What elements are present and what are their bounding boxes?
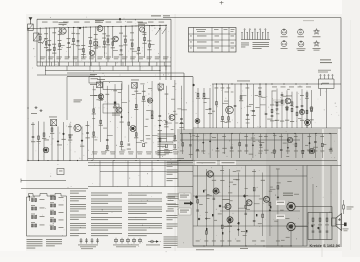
tiny label strip 9: [286, 155, 289, 158]
capacitor C3121: [180, 123, 183, 124]
junction upper bus x112: [112, 26, 113, 27]
tiny label mid 15: [177, 108, 181, 111]
panel strip column x239: [239, 134, 241, 159]
legend col3 para5: [128, 223, 162, 231]
jog wire clusterB 0: [94, 95, 100, 97]
capacitor C402: [209, 109, 212, 110]
cluster C label 8: [246, 118, 250, 121]
cluster C column x228: [228, 84, 230, 128]
bottom right sliver text: [164, 237, 178, 248]
transformer symbol T20: [50, 197, 55, 200]
legend col1 para5: [70, 223, 86, 231]
tiny label audio 1: [228, 191, 232, 194]
electrolytic capacitor blobs audio: [203, 190, 204, 192]
cluster B bottom label 3: [119, 151, 125, 154]
cluster D column x302: [301, 89, 303, 128]
wire x313 network feed: [312, 184, 314, 213]
cluster A column x52: [51, 120, 53, 160]
resistor R right margin: [343, 200, 345, 214]
wire x67 down: [66, 77, 68, 120]
resistor R3010: [100, 120, 102, 123]
resistor R3060: [135, 104, 137, 107]
jog wire clusterB 6: [136, 141, 142, 143]
resistor R7100: [277, 186, 279, 189]
ground near left border: [35, 106, 38, 109]
input label box 1: [179, 193, 192, 200]
transformer label T21: [59, 204, 64, 207]
interstage wire x113: [112, 66, 114, 71]
audio column x213: [213, 173, 215, 247]
label V103 AF105: [138, 23, 147, 24]
resistor R617: [302, 150, 304, 153]
value label 13: [111, 46, 115, 49]
cluster B column x128: [128, 85, 130, 142]
network label 0: [311, 224, 315, 227]
resistor R3000: [93, 109, 95, 112]
diode D7051: [237, 228, 239, 230]
cluster D label 2: [280, 120, 284, 123]
vertical x303: [302, 166, 304, 247]
cluster B label 120: [179, 122, 183, 125]
cluster D top label 4: [306, 86, 311, 89]
wire column upper block x132: [131, 26, 133, 62]
text V354 label: [224, 225, 232, 228]
tiny label audio 15: [199, 203, 203, 206]
jog wire audio 3: [222, 206, 228, 208]
capacitor C208: [86, 132, 89, 133]
text V201 AF201: [74, 100, 83, 101]
tiny label mid 5: [146, 118, 149, 121]
jog wire clusterB 4: [122, 101, 128, 103]
panel strip label b 9: [244, 150, 248, 153]
table row 2 letter: [190, 47, 192, 50]
legend symbols text 2: [113, 244, 139, 247]
resistor R3001: [93, 132, 95, 135]
legend col3 para4: [128, 217, 162, 220]
transistor V104: [89, 50, 94, 55]
table column line x212: [211, 28, 213, 53]
resistor R5050: [296, 112, 298, 115]
table column line x222: [221, 28, 223, 53]
resistor R5040: [291, 108, 293, 111]
connector N41: [319, 75, 335, 89]
bundle step wire x178: [177, 161, 179, 187]
table row 0 if: [215, 35, 220, 38]
transformer box outline: [27, 194, 67, 237]
label F201: [49, 116, 57, 119]
scan speckle noise layer: [28, 17, 340, 252]
resistor R115: [124, 39, 126, 42]
ref label 10: [94, 38, 98, 41]
tiny label strip 3: [273, 134, 276, 137]
small white label boxes right cluster: [273, 100, 284, 105]
bottom label row upper block 5: [81, 56, 87, 59]
capacitor C114: [120, 50, 123, 51]
wire column upper block x40: [39, 28, 41, 66]
resistor R3030: [114, 102, 116, 105]
panel strip label 6: [222, 147, 227, 150]
extra label 1: [44, 32, 48, 35]
audio label 31: [220, 179, 224, 182]
tiny label cd 19: [298, 117, 301, 120]
jog wire upper 19: [150, 44, 155, 46]
ref label 5: [66, 37, 70, 40]
interstage wire x100: [99, 66, 101, 71]
tiny label mid 10: [140, 139, 143, 142]
cluster A label 8: [86, 136, 90, 139]
capacitor C602: [196, 149, 199, 150]
cluster B label 110: [173, 148, 177, 151]
fold crease right: [322, 150, 323, 257]
antenna input filter Z101: [28, 24, 34, 30]
tiny label cd 18: [272, 90, 277, 93]
value label 17: [137, 52, 141, 55]
resistor R407: [240, 96, 242, 99]
legend col3 para1: [128, 193, 162, 196]
cluster C column x266: [265, 84, 267, 128]
ref label 15: [123, 35, 127, 38]
legend symbols bottom left: [80, 238, 83, 244]
transistor V202: [43, 147, 49, 153]
wire vertical right edge of upper block: [170, 19, 172, 80]
text V361 V362: [283, 193, 293, 194]
junction upper bus x46: [46, 28, 47, 29]
cluster C column x253: [253, 84, 255, 128]
resistor R7070: [253, 188, 255, 191]
cluster B top label 10: [165, 93, 169, 96]
audio bottom label 1: [204, 240, 208, 243]
top ref label 6: [106, 21, 112, 24]
cluster C column x260: [259, 84, 261, 128]
tiny label mid 22: [93, 88, 96, 91]
transformer symbol T24: [50, 227, 55, 230]
extra label 7: [76, 32, 80, 35]
cluster B bottom label 5: [137, 151, 143, 154]
table row 0 val: [231, 35, 235, 38]
transistor V211: [285, 98, 291, 104]
junction upper bus x121: [121, 26, 122, 27]
jog wire audio 7: [254, 203, 259, 205]
bundle step wire x113: [112, 161, 114, 187]
extra label 14: [119, 32, 123, 35]
bottom label row upper block 14: [155, 56, 161, 59]
text left of audio box 2: [166, 211, 174, 212]
tiny label cd 12: [249, 103, 253, 106]
tiny label audio 3: [229, 181, 233, 184]
dark component right margin: [344, 223, 347, 227]
cluster C top label 10: [258, 87, 262, 90]
value label 6: [71, 43, 75, 46]
junction top border: [119, 18, 121, 20]
cluster B top label 3: [113, 89, 117, 92]
main bus upper block: [28, 25, 167, 28]
audio amp outer box: [193, 166, 307, 247]
label F203: [131, 79, 139, 82]
bottom label row upper block 2: [56, 56, 62, 59]
audio bottom label 7: [252, 240, 256, 243]
transistor V203: [98, 94, 103, 99]
capacitor C3101: [165, 122, 168, 123]
tiny label strip 17: [251, 137, 255, 140]
label 14V: [286, 95, 292, 98]
tiny label cd 5: [203, 101, 206, 104]
cluster A label 1: [37, 140, 41, 143]
jog wire clusterB 10: [166, 122, 172, 124]
tiny label mid 7: [118, 91, 121, 94]
ref label 13: [111, 37, 115, 40]
panel strip label b 17: [301, 150, 305, 153]
legend col1 para2: [70, 196, 86, 201]
value label 3: [52, 52, 56, 55]
audio label 80: [261, 179, 265, 182]
diode D204: [57, 140, 60, 143]
value label 18: [142, 42, 146, 45]
ceramic filter F203: [132, 83, 138, 89]
cluster A column x38: [38, 121, 40, 160]
junction upper bus x138: [138, 25, 139, 26]
tiny label mid 9: [121, 149, 126, 152]
diode D7090: [269, 209, 271, 211]
switch note right: [253, 42, 270, 49]
cluster B bottom label 0: [92, 151, 98, 154]
transistor V213: [305, 120, 311, 126]
panel strip column x246: [245, 134, 247, 155]
cluster B column x107: [106, 86, 108, 150]
cluster A label 5: [62, 138, 66, 141]
cluster B column x166: [165, 86, 167, 142]
audio bottom label 4: [227, 240, 231, 243]
wire column upper block x59: [59, 28, 61, 66]
transistor V201: [74, 124, 81, 131]
capacitor C7020: [213, 198, 216, 199]
value label 9: [88, 45, 92, 48]
wire x331 network feed: [330, 166, 332, 213]
right wire x160: [159, 26, 161, 80]
resistor R112: [107, 39, 109, 42]
legend col2 para3: [91, 207, 122, 215]
frequency table: [189, 28, 237, 53]
diode D3031: [114, 102, 116, 104]
resistor R400: [197, 93, 199, 96]
cluster A label 3: [50, 132, 54, 135]
audio column x245: [245, 166, 247, 247]
value label 5: [66, 46, 70, 49]
cluster C top label 8: [246, 87, 250, 90]
panel strip label c 16: [294, 135, 298, 138]
cluster C label 10: [258, 95, 262, 98]
audio column x262: [262, 173, 264, 237]
tiny label strip 8: [329, 148, 332, 151]
power transistor V361: [287, 202, 295, 210]
tiny label audio 11: [233, 170, 236, 173]
wire column upper block x107: [107, 27, 109, 62]
long bus y160: [28, 160, 193, 162]
tiny label strip 19: [259, 146, 262, 149]
panel strip label 12: [264, 149, 269, 152]
panel strip label b 21: [329, 150, 333, 153]
resistor R203: [51, 128, 53, 131]
cluster A label 0: [31, 140, 35, 143]
network column x327: [326, 213, 328, 240]
tiny label cd 17: [224, 121, 227, 124]
bottom label row upper block 6: [89, 56, 95, 59]
resistor R600: [182, 143, 184, 146]
resistor R80: [312, 218, 314, 221]
panel strip label b 7: [230, 150, 234, 153]
transistor V206: [147, 98, 152, 103]
legend col1 para6: [70, 233, 86, 236]
table row 0 letter: [190, 35, 192, 38]
audio column x269: [269, 166, 271, 237]
resistor R7091: [269, 202, 271, 205]
bottom label row upper block 11: [130, 56, 136, 59]
audio bottom label 5: [236, 240, 240, 243]
bundle step wire x100: [99, 161, 101, 187]
panel strip label c 11: [259, 135, 263, 138]
socket3 label: [313, 35, 321, 38]
cluster B label 91: [158, 129, 162, 132]
value label 15: [123, 44, 127, 47]
network column x313: [312, 213, 314, 240]
audio bottom label 0: [196, 240, 200, 243]
panel strip column x315: [314, 134, 316, 159]
faint note top right: [303, 19, 314, 22]
cluster C column x247: [247, 84, 249, 128]
junction dots rail y84: [221, 83, 222, 84]
cluster C label 5: [227, 120, 231, 123]
ref label 18: [142, 33, 146, 36]
cluster B column x159: [159, 82, 161, 158]
transformer symbol T12: [31, 216, 36, 219]
note below transformer box right: [46, 239, 62, 246]
cluster B bottom label 2: [110, 151, 116, 154]
audio top label 3: [220, 169, 224, 172]
table row 1 letter: [190, 41, 192, 44]
tiny label audio 32: [243, 234, 247, 237]
top ref label 3: [74, 21, 80, 24]
panel strip column x217: [216, 134, 218, 159]
capacitor C609: [245, 145, 248, 146]
capacitor C81: [319, 231, 322, 232]
diode D351: [195, 195, 198, 198]
left border wire x28: [27, 30, 29, 160]
transformer label T23: [59, 219, 64, 222]
extra label 4: [58, 33, 62, 36]
junction bus x38.5: [38, 160, 39, 161]
audio rail y196 partial: [193, 195, 260, 197]
top ref label 9: [137, 21, 143, 24]
tiny label audio 29: [205, 211, 208, 214]
jog wire upper 13: [113, 49, 118, 51]
diode D7011: [205, 217, 207, 219]
resistor R7081: [262, 214, 264, 217]
resistor R113: [112, 42, 114, 45]
DIN socket symbol 1: [281, 29, 287, 35]
cluster B column x181: [180, 86, 182, 142]
short bus below upper block: [37, 74, 95, 76]
bundle step wire x140: [139, 161, 141, 187]
panel strip label c 20: [320, 135, 324, 138]
capacitor C619: [314, 142, 317, 143]
tiny label audio 13: [207, 193, 210, 196]
socket symbol 3 star: [314, 29, 320, 35]
junction upper bus x95: [95, 26, 96, 27]
diode D354: [198, 218, 201, 221]
tiny label audio 26: [245, 187, 248, 190]
panel strip column x274: [273, 134, 275, 159]
cluster B column x152: [151, 81, 153, 158]
panel strip label b 11: [259, 150, 263, 153]
rail y128: [193, 127, 341, 129]
diode D7101: [277, 196, 279, 198]
cluster B top label 2: [105, 93, 109, 96]
cluster C label 0: [196, 97, 200, 100]
cluster C column x210: [209, 88, 211, 128]
cluster B bottom label 6: [146, 151, 152, 154]
transformer symbol T21: [50, 204, 55, 207]
tiny label cd 0: [274, 119, 277, 122]
diode D604: [209, 140, 211, 142]
capacitor C601: [189, 145, 192, 146]
cluster C column x222: [222, 84, 224, 128]
junction upper bus x149: [149, 25, 150, 26]
ref label 8: [81, 44, 85, 47]
note below transformer box left: [27, 239, 43, 249]
text 2mV left: [166, 197, 175, 198]
legend arrow text: [146, 244, 160, 247]
panel strip column x203: [202, 134, 204, 155]
panel strip label c 2: [196, 135, 200, 138]
resistor R101: [45, 42, 47, 45]
resistor R5080: [311, 107, 313, 110]
cluster B bottom label 8: [164, 151, 170, 154]
audio bottom label 3: [220, 240, 224, 243]
white label strip on gray top: [195, 161, 217, 165]
cluster A column x33: [32, 122, 34, 160]
bus y166: [88, 165, 193, 167]
diode D603: [202, 142, 204, 144]
interstage wire x166: [165, 66, 167, 71]
label V102 AF105: [95, 20, 104, 21]
wire column upper block x83: [82, 27, 84, 58]
note next to border: [163, 14, 170, 17]
resistor R410: [259, 91, 261, 94]
tiny label strip 6: [253, 140, 256, 143]
transistor V102: [97, 26, 103, 32]
capacitor C200: [32, 136, 35, 137]
legend col3 para2: [128, 199, 162, 204]
transformer label T10: [40, 198, 45, 201]
network column x320: [319, 213, 321, 240]
transistor V302: [309, 148, 314, 153]
wire y186: [88, 186, 193, 188]
tiny label strip 16: [271, 151, 274, 154]
cluster B label 121: [179, 126, 183, 129]
diode D3041: [120, 116, 122, 118]
cluster D column x282: [281, 92, 283, 128]
resistor R202: [43, 133, 45, 136]
cluster D mid label 8: [310, 107, 314, 110]
cluster B column x136: [135, 82, 137, 158]
resistor R5071: [306, 93, 308, 96]
cluster D label 8: [310, 118, 314, 121]
tiny label mid 13: [94, 139, 97, 142]
junction upper bus x90: [90, 27, 91, 28]
cluster D column x272: [271, 91, 273, 128]
cluster C top label 3: [215, 87, 219, 90]
cluster D label 3: [285, 119, 289, 122]
panel strip column x302: [302, 134, 304, 159]
